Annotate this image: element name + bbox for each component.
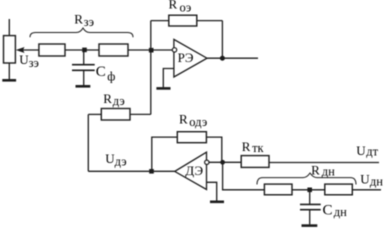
wire Rde right lead [130, 113, 151, 115]
op-amp DE triangle [175, 152, 207, 189]
svg-text:Rдн: Rдн [311, 162, 335, 178]
wire node down to Rdn chain [223, 165, 265, 190]
wiper arrowhead [16, 47, 25, 53]
brace over Rdn [257, 173, 356, 185]
node (Rdn junction) [307, 188, 312, 193]
wire Roe left lead [151, 20, 169, 22]
resistor Rze second half body [99, 44, 128, 56]
wire node to Cdn [309, 190, 311, 204]
svg-text:Rоэ: Rоэ [169, 0, 192, 15]
wire DE bubble to Rtk [209, 161, 241, 163]
wire potentiometer bottom lead [8, 63, 10, 79]
node (RE input junction) [149, 48, 154, 53]
op-amp DE inverting bubble [205, 160, 209, 164]
resistor Rode body [177, 132, 206, 143]
ground (under potentiometer) [2, 79, 16, 82]
wire Roe right lead [197, 20, 223, 22]
resistor Rdn second half body [325, 184, 353, 195]
op-amp RE inverting bubble [172, 48, 176, 52]
svg-text:Uзэ: Uзэ [19, 52, 39, 70]
svg-text:Rдэ: Rдэ [103, 91, 125, 108]
capacitor Cf plates [72, 65, 95, 71]
wire Cdn to ground [309, 210, 311, 224]
capacitor Cdn plates [300, 204, 321, 209]
ground (DE input) [210, 201, 224, 204]
svg-text:Rтк: Rтк [242, 139, 265, 155]
svg-text:Rзэ: Rзэ [74, 12, 94, 30]
svg-text:Uдт: Uдт [356, 143, 378, 159]
node (Ude junction) [149, 169, 154, 174]
ground (under Cf) [76, 85, 91, 88]
wire wiper arrow to Rze1 [22, 49, 39, 51]
wire RE second input [163, 69, 174, 88]
svg-text:Uдн: Uдн [360, 172, 383, 189]
potentiometer Uzе body [4, 36, 16, 63]
svg-text:Cф: Cф [96, 64, 116, 83]
wire Rode left branch [152, 137, 178, 171]
node (DE right junction) [220, 160, 225, 165]
wire feedback left vertical [150, 21, 152, 115]
node (RE output) [220, 56, 225, 61]
svg-text:РЭ: РЭ [178, 50, 194, 65]
wire Rze2 to op-amp RE input [128, 49, 172, 51]
wire Rze1 to Rze2 [65, 49, 99, 51]
wire Roe right vertical to output node [221, 21, 223, 56]
brace over Rze [30, 28, 133, 37]
svg-text:Uдэ: Uдэ [105, 151, 126, 168]
ground (under Cdn) [302, 224, 318, 227]
svg-text:Rодэ: Rодэ [179, 111, 207, 129]
wire Udn output [352, 189, 381, 191]
wire node to Cf [83, 50, 85, 64]
resistor Rtk body [241, 156, 269, 168]
op-amp RE triangle [174, 39, 207, 77]
resistor Rdn first half body [264, 184, 292, 195]
resistor Rze first half body [39, 44, 65, 56]
ground (RE input) [156, 87, 170, 90]
svg-text:Cдн: Cдн [323, 202, 348, 218]
resistor Rde body [101, 109, 130, 121]
svg-text:ДЭ: ДЭ [185, 163, 203, 178]
wire Ude horizontal to DE apex [88, 170, 174, 172]
wire Rode right lead [206, 137, 221, 162]
resistor Roe body [169, 15, 197, 26]
wire Rde left lead [88, 113, 101, 115]
node (Cf junction) [82, 48, 87, 53]
wire left vertical down to Ude node [87, 114, 89, 171]
wire potentiometer top lead [8, 19, 10, 36]
wire Rdn1 to Rdn2 [292, 189, 325, 191]
wire DE lower input [207, 182, 217, 200]
wire Cf to ground [83, 71, 85, 85]
wire Udt output line [269, 162, 379, 164]
wire RE output [207, 57, 258, 59]
